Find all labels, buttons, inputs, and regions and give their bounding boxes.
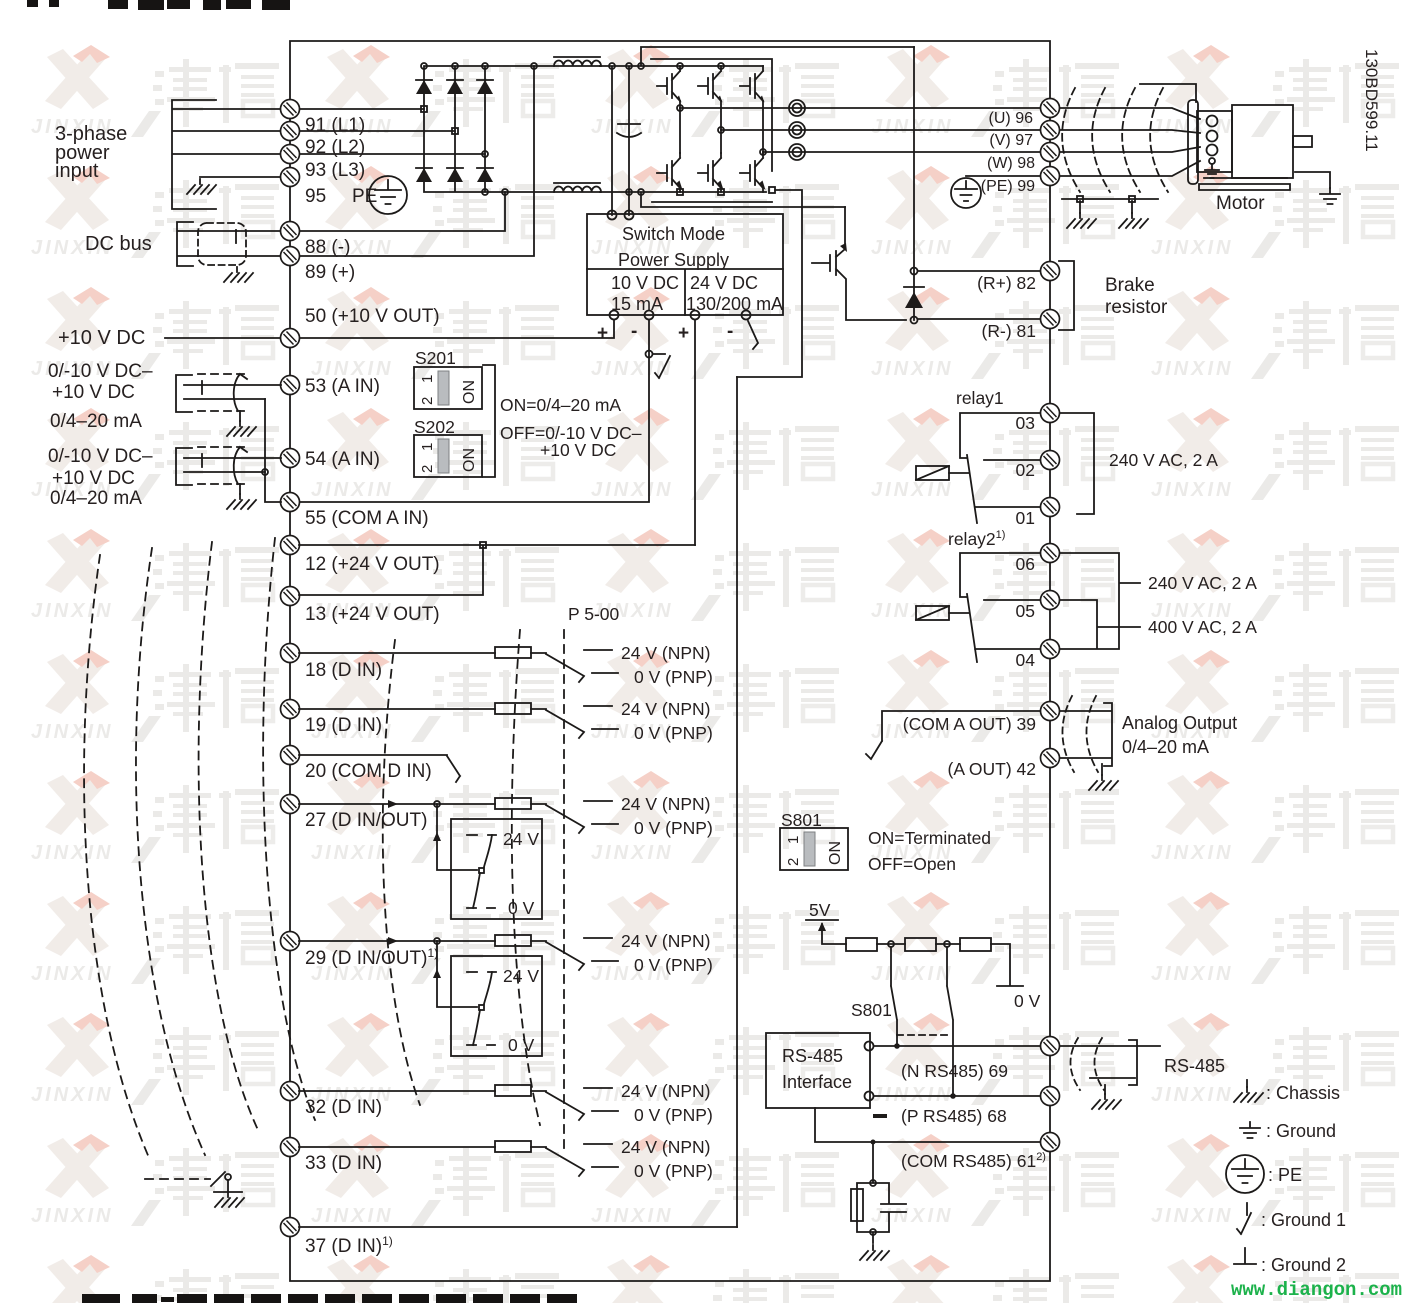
svg-text:P 5-00: P 5-00 <box>568 604 620 624</box>
svg-text:ON=0/4–20 mA: ON=0/4–20 mA <box>500 395 621 415</box>
svg-text:: Ground 2: : Ground 2 <box>1261 1255 1346 1275</box>
svg-text:(W) 98: (W) 98 <box>987 155 1035 172</box>
svg-text:: Chassis: : Chassis <box>1266 1083 1340 1103</box>
svg-text:(COM A OUT) 39: (COM A OUT) 39 <box>903 714 1036 734</box>
svg-text:Brake: Brake <box>1105 275 1155 296</box>
svg-text:(R+) 82: (R+) 82 <box>977 273 1036 293</box>
svg-text:93 (L3): 93 (L3) <box>305 160 365 181</box>
svg-text:240 V AC, 2 A: 240 V AC, 2 A <box>1109 450 1218 470</box>
svg-text:18 (D IN): 18 (D IN) <box>305 660 382 681</box>
svg-text:13 (+24 V OUT): 13 (+24 V OUT) <box>305 604 440 625</box>
svg-text:88 (-): 88 (-) <box>305 237 350 258</box>
svg-text:(P RS485) 68: (P RS485) 68 <box>901 1106 1007 1126</box>
svg-text:Analog Output: Analog Output <box>1122 713 1237 733</box>
svg-text:Interface: Interface <box>782 1072 852 1092</box>
svg-text:resistor: resistor <box>1105 297 1168 318</box>
svg-text:130BD599.11: 130BD599.11 <box>1362 49 1381 152</box>
svg-text:RS-485: RS-485 <box>1164 1056 1225 1076</box>
svg-text:+10 V DC: +10 V DC <box>52 468 135 489</box>
svg-text:20 (COM D IN): 20 (COM D IN) <box>305 761 432 782</box>
svg-text:Switch Mode: Switch Mode <box>622 224 725 244</box>
svg-text:S801: S801 <box>851 1000 892 1020</box>
svg-text:15 mA: 15 mA <box>611 294 663 314</box>
svg-text:ON=Terminated: ON=Terminated <box>868 828 991 848</box>
svg-text:www.diangon.com: www.diangon.com <box>1231 1279 1402 1301</box>
svg-text:0/4–20 mA: 0/4–20 mA <box>50 411 142 432</box>
svg-text:(R-) 81: (R-) 81 <box>982 321 1036 341</box>
svg-text:29 (D IN/OUT)1): 29 (D IN/OUT)1) <box>305 946 438 969</box>
svg-text:0/4–20 mA: 0/4–20 mA <box>1122 737 1209 757</box>
svg-text:: Ground: : Ground <box>1266 1121 1336 1141</box>
svg-text:-: - <box>727 321 733 342</box>
svg-text:92 (L2): 92 (L2) <box>305 137 365 158</box>
svg-text:33 (D IN): 33 (D IN) <box>305 1153 382 1174</box>
svg-text:Motor: Motor <box>1216 193 1265 214</box>
svg-text:-: - <box>631 321 637 342</box>
svg-text:+: + <box>597 323 608 344</box>
svg-text:02: 02 <box>1016 460 1035 480</box>
svg-text:(N RS485) 69: (N RS485) 69 <box>901 1061 1008 1081</box>
svg-text:S202: S202 <box>414 417 455 437</box>
svg-text:DC bus: DC bus <box>85 233 152 255</box>
svg-text:+10 V DC: +10 V DC <box>540 440 616 460</box>
svg-text:400 V AC, 2 A: 400 V AC, 2 A <box>1148 617 1257 637</box>
svg-text:55 (COM A IN): 55 (COM A IN) <box>305 508 429 529</box>
svg-text:53 (A IN): 53 (A IN) <box>305 376 380 397</box>
svg-text:0/4–20 mA: 0/4–20 mA <box>50 488 142 509</box>
svg-text:10 V DC: 10 V DC <box>611 273 679 293</box>
svg-text:06: 06 <box>1016 554 1035 574</box>
svg-text:+10 V DC: +10 V DC <box>52 382 135 403</box>
svg-text:0/-10 V DC–: 0/-10 V DC– <box>48 361 153 382</box>
svg-text:RS-485: RS-485 <box>782 1046 843 1066</box>
svg-text:+: + <box>678 323 689 344</box>
svg-text:240 V AC, 2 A: 240 V AC, 2 A <box>1148 573 1257 593</box>
svg-text:01: 01 <box>1016 508 1035 528</box>
svg-text:: PE: : PE <box>1268 1165 1302 1185</box>
svg-text:(U) 96: (U) 96 <box>989 110 1034 127</box>
svg-text:95: 95 <box>305 186 326 207</box>
svg-text:(V) 97: (V) 97 <box>989 132 1033 149</box>
svg-text:54 (A IN): 54 (A IN) <box>305 449 380 470</box>
svg-text:05: 05 <box>1016 601 1035 621</box>
svg-text:: Ground 1: : Ground 1 <box>1261 1210 1346 1230</box>
svg-text:130/200 mA: 130/200 mA <box>686 294 783 314</box>
svg-text:04: 04 <box>1016 650 1036 670</box>
svg-text:0/-10 V DC–: 0/-10 V DC– <box>48 446 153 467</box>
svg-text:24 V DC: 24 V DC <box>690 273 758 293</box>
svg-text:0 V: 0 V <box>1014 991 1041 1011</box>
svg-text:input: input <box>55 160 99 182</box>
svg-text:(PE) 99: (PE) 99 <box>981 178 1035 195</box>
svg-text:50 (+10 V OUT): 50 (+10 V OUT) <box>305 306 440 327</box>
svg-text:03: 03 <box>1016 413 1035 433</box>
svg-text:+10 V DC: +10 V DC <box>58 327 145 349</box>
svg-text:S801: S801 <box>781 810 822 830</box>
svg-text:32 (D IN): 32 (D IN) <box>305 1097 382 1118</box>
svg-text:19 (D IN): 19 (D IN) <box>305 715 382 736</box>
svg-text:S201: S201 <box>415 348 456 368</box>
svg-text:Power Supply: Power Supply <box>618 250 729 270</box>
svg-text:27 (D IN/OUT): 27 (D IN/OUT) <box>305 810 427 831</box>
svg-text:PE: PE <box>352 186 377 207</box>
svg-text:(COM RS485) 612): (COM RS485) 612) <box>901 1151 1046 1171</box>
svg-text:OFF=Open: OFF=Open <box>868 854 956 874</box>
svg-text:12 (+24 V OUT): 12 (+24 V OUT) <box>305 554 440 575</box>
svg-text:(A OUT) 42: (A OUT) 42 <box>948 759 1037 779</box>
svg-text:37 (D IN)1): 37 (D IN)1) <box>305 1234 393 1257</box>
svg-text:89 (+): 89 (+) <box>305 262 355 283</box>
svg-text:91 (L1): 91 (L1) <box>305 115 365 136</box>
svg-text:5V: 5V <box>809 900 831 920</box>
svg-text:relay1: relay1 <box>956 388 1004 408</box>
